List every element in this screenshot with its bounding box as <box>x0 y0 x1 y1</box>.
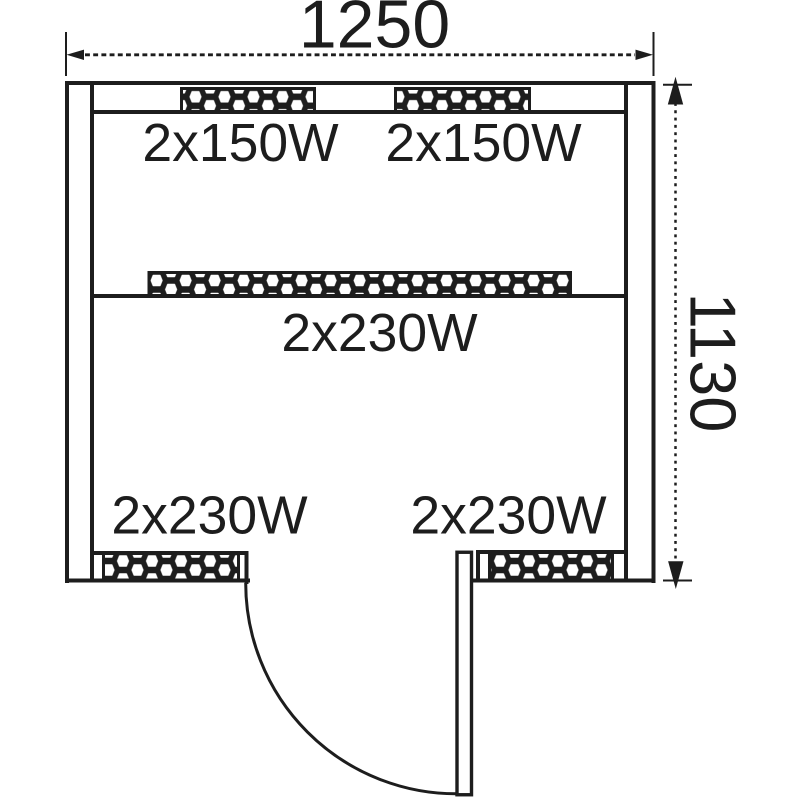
svg-text:2x230W: 2x230W <box>410 487 607 546</box>
svg-text:2x150W: 2x150W <box>142 114 339 173</box>
svg-text:2x230W: 2x230W <box>281 304 478 363</box>
svg-text:1130: 1130 <box>677 293 750 433</box>
svg-text:1250: 1250 <box>299 0 450 63</box>
svg-text:2x150W: 2x150W <box>385 114 582 173</box>
svg-text:2x230W: 2x230W <box>111 487 308 546</box>
